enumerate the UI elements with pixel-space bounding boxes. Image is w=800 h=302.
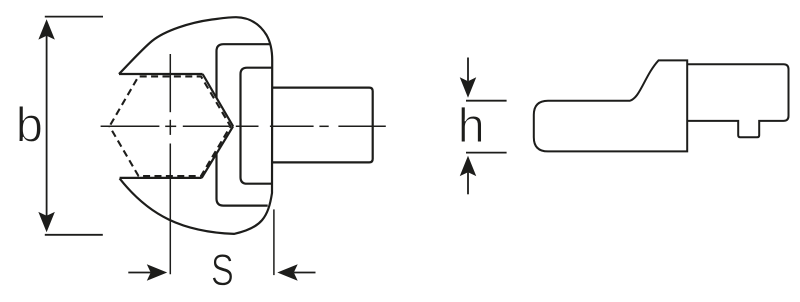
dimension S left arrowhead [147, 264, 167, 281]
lower jaw diagonal [202, 126, 233, 178]
dimension h top arrowhead (down) [460, 77, 477, 97]
horizontal centerline short dash 5 [319, 125, 328, 127]
horizontal centerline dash 4 [270, 125, 314, 127]
upper jaw diagonal [203, 74, 234, 126]
hexagon across-flats (dashed) [110, 76, 231, 176]
inner slot rounded rectangle [241, 68, 273, 184]
dimension h bottom arrow tail [467, 172, 469, 194]
dimension h extension line bottom [466, 152, 507, 154]
wrench head outline [119, 17, 272, 234]
dimension b extension line top [45, 16, 103, 18]
outer slot top edge and left edge upper part [217, 44, 270, 97]
horizontal centerline dash 1 [101, 125, 160, 127]
horizontal centerline dash 3 [236, 125, 259, 127]
dimension h extension line top [466, 100, 507, 102]
side view body outline [534, 60, 687, 151]
svg-text:b: b [16, 98, 43, 152]
dimension b arrow up [38, 19, 55, 39]
dimension S left arrow tail [128, 272, 151, 274]
dimension S extension line right [273, 209, 275, 275]
upper jaw flat [119, 73, 203, 75]
dimension b extension line bottom [45, 234, 103, 236]
dimension h bottom arrowhead (up) [460, 156, 477, 176]
horizontal centerline dash 6 [338, 125, 385, 127]
dimension S right arrow tail [294, 272, 316, 274]
vertical centerline short dash at center [169, 120, 171, 135]
lower jaw flat [120, 177, 202, 179]
shank rectangle [272, 88, 373, 163]
svg-text:h: h [458, 99, 485, 153]
outer slot bottom edge and left edge lower part [217, 154, 268, 206]
dimension S right arrowhead [277, 264, 297, 281]
vertical centerline segment 3 / S extension left [169, 144, 171, 275]
horizontal centerline dash 2 [183, 125, 229, 127]
dimension h top arrow tail [467, 58, 469, 82]
dimension b line [46, 36, 48, 217]
horizontal centerline short dash at center [165, 125, 176, 127]
label S [212, 254, 232, 285]
dimension b arrow down [38, 212, 55, 232]
side view square head outline [687, 64, 788, 137]
vertical centerline segment 1 [169, 54, 171, 112]
